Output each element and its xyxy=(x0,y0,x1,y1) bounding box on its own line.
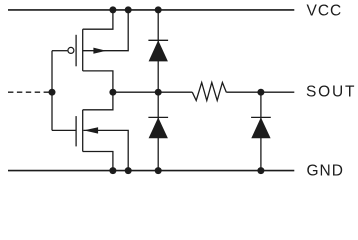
node VCC-Q1 bulk xyxy=(125,6,132,13)
node GND-D2 xyxy=(155,167,162,174)
node GND-Q2 bulk xyxy=(125,167,132,174)
node output xyxy=(109,89,116,96)
wire Q1 drain to output xyxy=(83,71,113,92)
transistor Q1 PMOS gate plate xyxy=(75,35,77,67)
node GND-Q2 source xyxy=(109,167,116,174)
wire right column xyxy=(260,92,262,170)
diode D2 cathode bar xyxy=(148,116,168,118)
wire dashed input line xyxy=(8,91,50,93)
wire diode column lower xyxy=(157,92,159,170)
GND rail xyxy=(8,170,294,172)
svg-text:VCC: VCC xyxy=(307,3,343,20)
svg-text:SOUT: SOUT xyxy=(306,84,356,101)
wire Q2 drain to output xyxy=(83,92,113,110)
diode D3 cathode bar xyxy=(251,116,271,118)
diode D2 triangle xyxy=(149,117,168,138)
diode D1 triangle xyxy=(149,40,168,61)
wire SOUT line xyxy=(113,91,192,93)
wire SOUT right segment xyxy=(226,91,294,93)
svg-text:GND: GND xyxy=(307,162,344,179)
wire Q1 source to VCC xyxy=(83,10,113,29)
wire Q2 bulk to GND xyxy=(83,130,128,170)
transistor Q1 PMOS gate bubble xyxy=(68,47,74,53)
node output-diodes xyxy=(155,89,162,96)
wire diode column upper xyxy=(157,10,159,92)
node GND-D3 xyxy=(257,167,264,174)
transistor Q2 NMOS gate plate xyxy=(75,116,77,146)
diode D3 triangle xyxy=(251,117,270,138)
transistor Q1 PMOS gate wire xyxy=(52,50,67,52)
transistor Q1 PMOS channel xyxy=(82,29,84,71)
transistor Q2 NMOS channel xyxy=(82,110,84,152)
node SOUT-D3 xyxy=(257,89,264,96)
transistor Q1 PMOS bulk arrow xyxy=(93,48,106,54)
resistor R1 xyxy=(192,83,226,101)
node VCC-D1 xyxy=(155,6,162,13)
wire Q1 bulk to VCC xyxy=(83,10,129,51)
node VCC-Q1 source xyxy=(109,6,116,13)
wire Q2 source to GND xyxy=(83,152,113,171)
VCC rail xyxy=(8,9,294,11)
diode D1 cathode bar xyxy=(148,39,168,41)
transistor Q2 NMOS bulk arrow xyxy=(84,127,98,133)
wire input gate vertical xyxy=(51,51,53,131)
node input junction xyxy=(49,89,56,96)
transistor Q2 NMOS gate wire xyxy=(52,129,76,131)
